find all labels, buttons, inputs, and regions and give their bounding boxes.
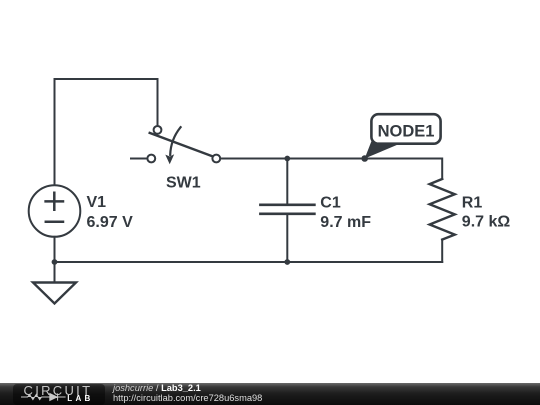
svg-text:9.7 kΩ: 9.7 kΩ xyxy=(462,213,511,230)
credit text xyxy=(113,383,262,403)
wire bottom net: ground node to R1 bottom xyxy=(55,261,443,263)
capacitor C1 top lead xyxy=(286,159,288,205)
V1 plus sign xyxy=(46,193,63,210)
NODE1 callout tail xyxy=(365,141,400,159)
voltage source V1 circle xyxy=(29,185,81,237)
NODE1 callout box xyxy=(371,114,440,144)
svg-text:NODE1: NODE1 xyxy=(378,123,435,141)
ground symbol triangle xyxy=(33,283,76,304)
svg-text:V1: V1 xyxy=(87,194,107,211)
V1 minus sign xyxy=(46,220,63,223)
capacitor C1 bottom plate xyxy=(260,213,314,216)
CircuitLab logo schematic line: resistor zigzag and diode xyxy=(21,392,71,402)
wire top-left: V1 top to switch SW1 top terminal xyxy=(55,79,158,186)
wire stub to SW1 left open terminal xyxy=(131,158,147,160)
switch SW1 actuator arrow arc xyxy=(170,127,180,155)
switch SW1 left open terminal circle xyxy=(147,155,155,163)
switch SW1 arrow head xyxy=(165,154,174,164)
footer bar xyxy=(0,383,540,405)
junction C1 bottom xyxy=(284,259,290,265)
ground stem xyxy=(54,262,56,283)
capacitor C1 top plate xyxy=(260,204,314,207)
junction ground node xyxy=(52,259,58,265)
junction NODE1 xyxy=(361,155,368,162)
svg-text:6.97 V: 6.97 V xyxy=(87,214,134,231)
capacitor C1 bottom lead xyxy=(286,214,288,262)
svg-text:R1: R1 xyxy=(462,195,483,212)
svg-text:SW1: SW1 xyxy=(166,175,201,192)
svg-text:9.7 mF: 9.7 mF xyxy=(320,214,371,231)
switch SW1 right terminal circle xyxy=(212,155,220,163)
wire node1 net: SW1 right terminal to R1 top corner xyxy=(220,159,442,180)
switch SW1 blade xyxy=(150,133,214,157)
resistor R1 bottom lead xyxy=(441,240,443,262)
CircuitLab logo background xyxy=(13,384,105,405)
svg-text:C1: C1 xyxy=(320,195,341,212)
wire V1 bottom lead xyxy=(54,237,56,262)
CircuitLab logo word CIRCUIT xyxy=(24,385,93,397)
junction C1 top xyxy=(284,156,290,162)
switch SW1 top terminal circle xyxy=(154,126,162,134)
resistor R1 zigzag xyxy=(430,179,455,240)
CircuitLab logo word LAB xyxy=(67,395,93,403)
